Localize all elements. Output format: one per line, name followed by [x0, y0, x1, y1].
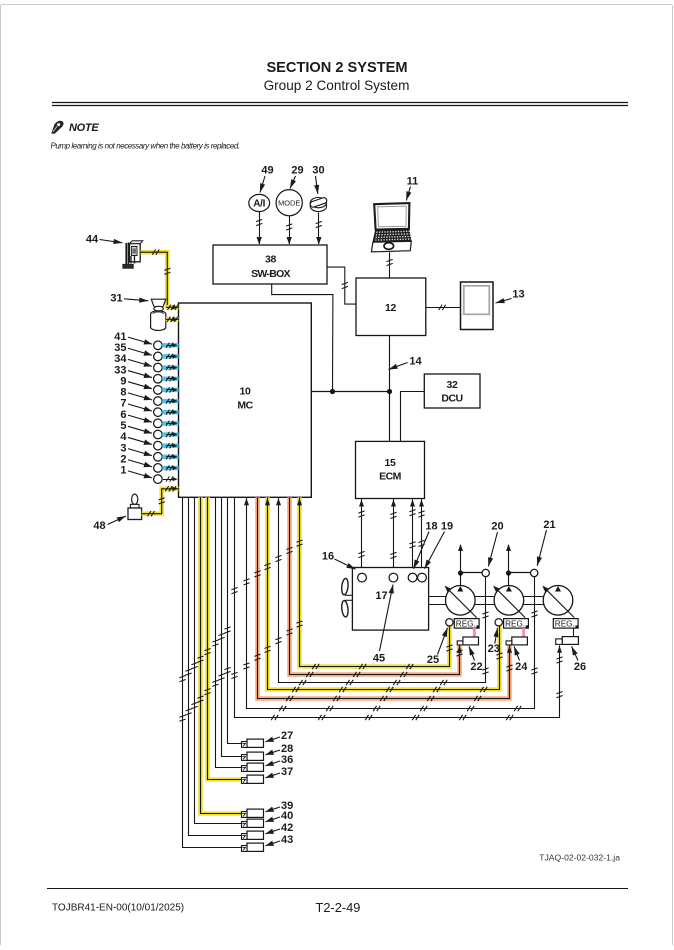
laptop 11: [371, 203, 412, 252]
svg-text:ECM: ECM: [379, 471, 402, 483]
svg-text:42: 42: [281, 822, 293, 834]
wire MC to sensor 23 (yellow): [268, 497, 500, 689]
sensor 3 circle: [154, 453, 163, 462]
connector 22: [457, 637, 478, 645]
pump 1: [445, 586, 477, 618]
junction node A: [387, 389, 392, 394]
label 36: [266, 754, 294, 766]
svg-text:23: 23: [488, 643, 500, 655]
box 10 MC: [179, 303, 312, 497]
svg-text:1: 1: [120, 465, 126, 477]
label 19: [425, 521, 454, 569]
sensor 4 circle: [154, 441, 163, 450]
label 35: [114, 342, 152, 356]
break marks on wire 36: [212, 640, 218, 686]
header title: [264, 60, 410, 93]
wire switch29 to SW-BOX: [286, 216, 292, 245]
label 11: [406, 176, 418, 201]
arrows and breaks on wire MC to connector 24 (orange): [254, 571, 512, 701]
connector 28: [242, 752, 264, 760]
wire MC to connector 37 (yellow): [208, 497, 242, 779]
svg-text:44: 44: [86, 234, 99, 246]
svg-text:Pump learning is not necessary: Pump learning is not necessary when the …: [51, 142, 240, 151]
wire ECM to engine sensor: [390, 499, 396, 574]
pink wire REG1 to connector 22: [473, 628, 476, 637]
label 4: [120, 431, 152, 445]
wire MC to connector 24 (orange): [258, 497, 510, 698]
label 2: [120, 453, 152, 467]
svg-text:TJAQ-02-02-032-1.ja: TJAQ-02-02-032-1.ja: [539, 853, 620, 863]
wire MC to connector 22 (orange): [290, 497, 460, 674]
label 23: [488, 628, 500, 655]
engine fan: [341, 578, 352, 617]
break marks on wire 42: [185, 669, 191, 715]
pink wire REG2 to connector 24: [522, 628, 525, 637]
svg-text:30: 30: [312, 165, 324, 177]
engine sensor 16 circle: [358, 573, 367, 582]
wire MC to connector 42: [189, 497, 242, 835]
label 17: [375, 590, 387, 602]
label 39: [266, 800, 294, 812]
wire sensor 8 to MC: [162, 398, 178, 403]
wire ECM to engine sensor: [358, 499, 364, 574]
svg-text:19: 19: [441, 521, 453, 533]
svg-text:39: 39: [281, 800, 293, 812]
label 40: [266, 810, 294, 822]
regulator REG 1: [454, 619, 479, 629]
break marks on wire 27: [224, 627, 230, 674]
svg-text:SECTION 2 SYSTEM: SECTION 2 SYSTEM: [266, 60, 407, 76]
label 42: [266, 822, 294, 834]
label 41: [114, 331, 152, 345]
sensor 5 circle: [154, 430, 163, 439]
sensor 20 circle: [482, 569, 489, 576]
connector 27: [242, 739, 264, 747]
engine sensor 18 circle: [408, 573, 417, 582]
svg-text:24: 24: [515, 661, 528, 673]
wire MC to connector 27: [228, 497, 242, 743]
label 49: [260, 165, 274, 193]
label 9: [120, 375, 152, 389]
key switch 30: [309, 197, 327, 212]
switch 49 (A/I): [249, 194, 270, 211]
label 43: [266, 834, 294, 846]
sensor 23 circle: [495, 619, 502, 626]
box 12: [356, 278, 426, 336]
reservoir 31: [150, 299, 165, 330]
svg-text:Group 2 Control System: Group 2 Control System: [264, 78, 410, 93]
label 31: [110, 293, 148, 305]
svg-text:11: 11: [407, 176, 419, 188]
label 44: [86, 234, 123, 246]
arrows and breaks on wire MC to sensor 23 (yellow): [264, 498, 502, 692]
sensor 2 circle: [154, 464, 163, 473]
svg-text:TOJBR41-EN-00(10/01/2025): TOJBR41-EN-00(10/01/2025): [52, 903, 184, 914]
wire MC to connector 43: [183, 497, 242, 847]
wire sensor 5 to MC: [162, 432, 178, 437]
wire MC to connector 28: [222, 497, 242, 756]
wire MC to sensor 20: [279, 497, 486, 682]
svg-text:REG.: REG.: [505, 619, 525, 628]
svg-text:21: 21: [543, 519, 555, 531]
wire switch30 to SW-BOX: [316, 212, 322, 244]
label 24: [514, 646, 528, 673]
wire sensor 2 to MC: [162, 465, 178, 470]
break marks on wire 43: [179, 676, 185, 722]
svg-text:16: 16: [322, 551, 334, 563]
label 20: [488, 521, 504, 567]
svg-text:REG.: REG.: [456, 619, 476, 628]
label 30: [312, 165, 324, 195]
sensor 8 circle: [154, 397, 163, 406]
regulator REG 3: [553, 619, 578, 629]
label 7: [120, 398, 152, 412]
wire pump2 pressure tap: [506, 544, 531, 585]
engine sensor 19 circle: [418, 573, 427, 582]
wire laptop to box 12: [387, 252, 393, 278]
box 32 DCU: [424, 374, 480, 408]
wire node A to ECM: [389, 392, 391, 442]
svg-text:22: 22: [470, 661, 482, 673]
sensor 7 circle: [154, 408, 163, 417]
engine sensor 17 circle: [389, 573, 398, 582]
wire 44 to MC (yellow): [141, 250, 171, 308]
label 45: [373, 585, 394, 665]
label 1: [120, 465, 152, 479]
pump 3: [542, 586, 574, 618]
wire MC to sensor 21: [247, 497, 535, 708]
connector 42: [242, 831, 264, 839]
svg-text:A/I: A/I: [253, 199, 265, 210]
svg-text:28: 28: [281, 743, 293, 755]
wire sensor 35 to MC: [162, 354, 178, 359]
wire DCU to ECM: [401, 392, 425, 442]
box 38 SW-BOX: [213, 245, 327, 284]
connector 43: [242, 843, 264, 851]
connector 36: [242, 763, 264, 771]
svg-text:REG.: REG.: [555, 619, 575, 628]
wire sensor 3 to MC: [162, 454, 178, 459]
svg-text:25: 25: [427, 654, 439, 666]
svg-text:45: 45: [373, 653, 385, 665]
label 33: [114, 364, 152, 378]
wire sensor 33 to MC: [162, 376, 178, 381]
wire 14 box12 to node A: [389, 336, 391, 392]
connector 40: [242, 819, 264, 827]
label 3: [120, 442, 152, 456]
label 8: [120, 387, 152, 401]
drive shaft: [429, 597, 544, 605]
svg-text:MC: MC: [237, 400, 253, 412]
svg-text:48: 48: [93, 520, 105, 532]
connector 24: [506, 637, 527, 645]
label 18: [414, 521, 438, 569]
regulator REG 2: [504, 619, 529, 629]
arrows and breaks on wire MC to sensor 25 (yellow): [296, 498, 452, 669]
label 16: [322, 551, 356, 570]
note pencil icon: [52, 121, 63, 133]
svg-text:32: 32: [447, 379, 458, 391]
wire switch49 to SW-BOX: [256, 212, 262, 245]
wire 48 to MC (yellow): [142, 486, 179, 516]
svg-text:14: 14: [409, 356, 422, 368]
svg-text:T2-2-49: T2-2-49: [316, 900, 361, 915]
wire SW-BOX bottom to node A: [272, 284, 333, 392]
wire 31 funnel to MC (yellow): [166, 305, 179, 310]
sensor 34 circle: [154, 363, 163, 372]
wire sensor 34 to MC: [162, 365, 178, 370]
label 13: [496, 289, 525, 304]
wire ECM to engine sensor: [418, 499, 424, 574]
wire pump1 pressure tap: [458, 544, 482, 585]
switch 29 (MODE): [276, 190, 302, 216]
svg-text:20: 20: [491, 521, 503, 533]
relay 44: [123, 241, 143, 268]
break marks on wire 39: [197, 656, 203, 702]
monitor 13: [461, 282, 494, 330]
svg-text:17: 17: [375, 590, 387, 602]
sensor 25 circle: [446, 619, 453, 626]
svg-text:43: 43: [281, 834, 293, 846]
footer rule: [47, 888, 628, 890]
wire MC to node A: [312, 391, 390, 393]
svg-text:MODE: MODE: [278, 198, 300, 207]
label 5: [120, 420, 152, 434]
engine block: [352, 568, 428, 631]
svg-text:36: 36: [281, 754, 293, 766]
wire REG3 to connector 26: [573, 628, 575, 637]
sensor 6 circle: [154, 419, 163, 428]
break marks on wire 37: [204, 649, 210, 695]
sensor 9 circle: [154, 386, 163, 395]
sensor 41 circle: [154, 341, 163, 350]
wire MC to connector 39 (yellow): [201, 497, 242, 813]
footer doc number: [52, 903, 184, 914]
box 15 ECM: [356, 441, 425, 498]
label 25: [427, 628, 448, 666]
svg-text:10: 10: [240, 386, 251, 398]
label 27: [266, 730, 294, 742]
break marks on wire 28: [218, 633, 224, 680]
figure number TJAQ-02-02-032-1.ja: [539, 853, 620, 863]
label 14: [389, 356, 423, 370]
sensor 33 circle: [154, 374, 163, 383]
label 6: [120, 409, 152, 423]
label 21: [537, 519, 556, 566]
note text: [69, 122, 99, 134]
wire box12 to monitor 13: [426, 305, 461, 310]
wire MC to connector 26: [235, 497, 560, 717]
connector 39: [242, 809, 264, 817]
arrows and breaks on wire MC to connector 22 (orange): [286, 547, 462, 677]
svg-text:27: 27: [281, 730, 293, 742]
break marks on wire 40: [191, 663, 197, 709]
wire sensor 41 to MC: [162, 343, 178, 348]
wire sensor 4 to MC: [162, 443, 178, 448]
arrows and breaks on wire MC to sensor 20: [275, 498, 488, 685]
switch 48: [128, 494, 142, 519]
svg-text:DCU: DCU: [441, 393, 462, 405]
junction node SW-BOX wire: [330, 389, 335, 394]
wire MC to sensor 25 (yellow): [300, 497, 450, 666]
wire sensor 6 to MC: [162, 421, 178, 426]
wire sensor 9 to MC: [162, 387, 178, 392]
label 37: [266, 766, 294, 778]
wire MC to connector 40: [195, 497, 242, 823]
label 29: [290, 165, 304, 189]
pump 2: [493, 586, 525, 618]
svg-text:26: 26: [574, 661, 586, 673]
arrows and breaks on wire MC to connector 26: [231, 587, 562, 720]
wire MC to connector 36: [216, 497, 242, 767]
connector 26: [556, 637, 579, 645]
wire sensor 7 to MC: [162, 410, 178, 415]
sensor 35 circle: [154, 352, 163, 361]
connector 37: [242, 775, 264, 783]
svg-text:18: 18: [425, 521, 437, 533]
wire 31 body to MC (yellow): [166, 317, 179, 322]
svg-text:12: 12: [385, 302, 396, 314]
label 34: [114, 353, 152, 367]
svg-text:NOTE: NOTE: [69, 122, 99, 134]
label 28: [266, 743, 294, 755]
svg-text:49: 49: [261, 165, 273, 177]
arrows and breaks on wire MC to sensor 21: [243, 498, 537, 711]
svg-text:38: 38: [265, 254, 276, 266]
wire sensor 1 to MC: [163, 476, 178, 481]
svg-text:15: 15: [385, 457, 396, 469]
note sentence: [51, 142, 240, 151]
label 26: [572, 646, 587, 673]
svg-text:31: 31: [110, 293, 122, 305]
svg-text:29: 29: [291, 165, 303, 177]
svg-text:SW-BOX: SW-BOX: [251, 268, 290, 280]
svg-text:13: 13: [512, 289, 524, 301]
header double rule: [52, 103, 628, 106]
svg-text:37: 37: [281, 766, 293, 778]
wire ECM to engine sensor: [409, 499, 415, 574]
label 22: [469, 646, 483, 673]
footer page number T2-2-49: [316, 900, 361, 915]
sensor 1 circle: [154, 475, 163, 484]
sensor 21 circle: [531, 569, 538, 576]
wire SW-BOX to box 12: [327, 267, 356, 304]
label 48: [93, 516, 126, 532]
